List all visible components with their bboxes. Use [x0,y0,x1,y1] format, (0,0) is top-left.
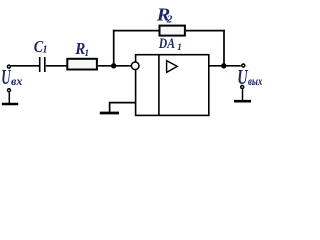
wire C1 to R1 [46,65,67,67]
svg-text:2: 2 [166,14,173,26]
feedback wire down [223,30,225,66]
svg-text:1: 1 [84,49,89,59]
junction node A [111,63,116,68]
input terminal Uin [7,65,10,68]
capacitor C1 [39,57,41,72]
svg-text:DA: DA [158,36,175,52]
svg-text:вх: вх [11,74,22,88]
wire R2 to output branch [186,30,225,32]
svg-text:1: 1 [177,43,182,53]
ground bar left [2,103,18,106]
resistor R2 [160,26,185,36]
lower-right terminal [241,86,244,89]
ground bar right [234,100,251,103]
svg-text:вых: вых [248,74,262,88]
wire input to C1 [11,65,39,67]
non-inverting input wire [110,103,136,112]
output wire [209,65,241,67]
feedback wire up [113,30,115,66]
output junction node [221,63,226,68]
svg-text:1: 1 [42,45,47,56]
resistor R1 [67,59,97,70]
lower-left terminal [8,89,11,92]
inverting input circle [131,62,139,70]
ground bar op-amp [100,112,119,115]
amplifier triangle [167,61,178,73]
wire terminal to ground right [242,89,244,100]
wire R1 to op-amp input [98,65,131,67]
feedback wire to R2 [113,30,159,32]
output terminal [242,64,245,67]
wire terminal to ground [8,92,10,103]
op-amp DA1 [136,55,209,116]
op-amp divider [158,55,160,116]
